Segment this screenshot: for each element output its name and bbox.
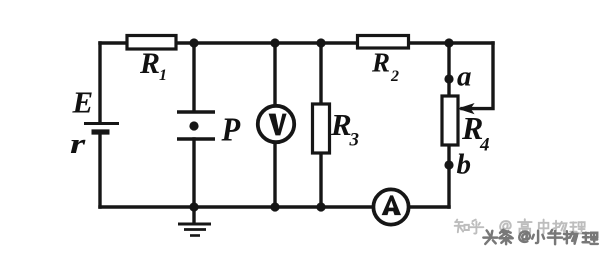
svg-text:R: R xyxy=(371,48,390,78)
svg-text:R: R xyxy=(330,107,352,142)
svg-text:a: a xyxy=(457,61,472,93)
svg-text:P: P xyxy=(221,110,241,148)
svg-text:2: 2 xyxy=(390,68,399,85)
svg-text:r: r xyxy=(70,128,86,160)
svg-text:b: b xyxy=(457,149,472,181)
svg-text:1: 1 xyxy=(159,67,167,84)
svg-text:4: 4 xyxy=(479,135,490,156)
svg-text:R: R xyxy=(139,47,160,80)
svg-text:3: 3 xyxy=(349,130,360,151)
svg-text:E: E xyxy=(72,85,94,120)
